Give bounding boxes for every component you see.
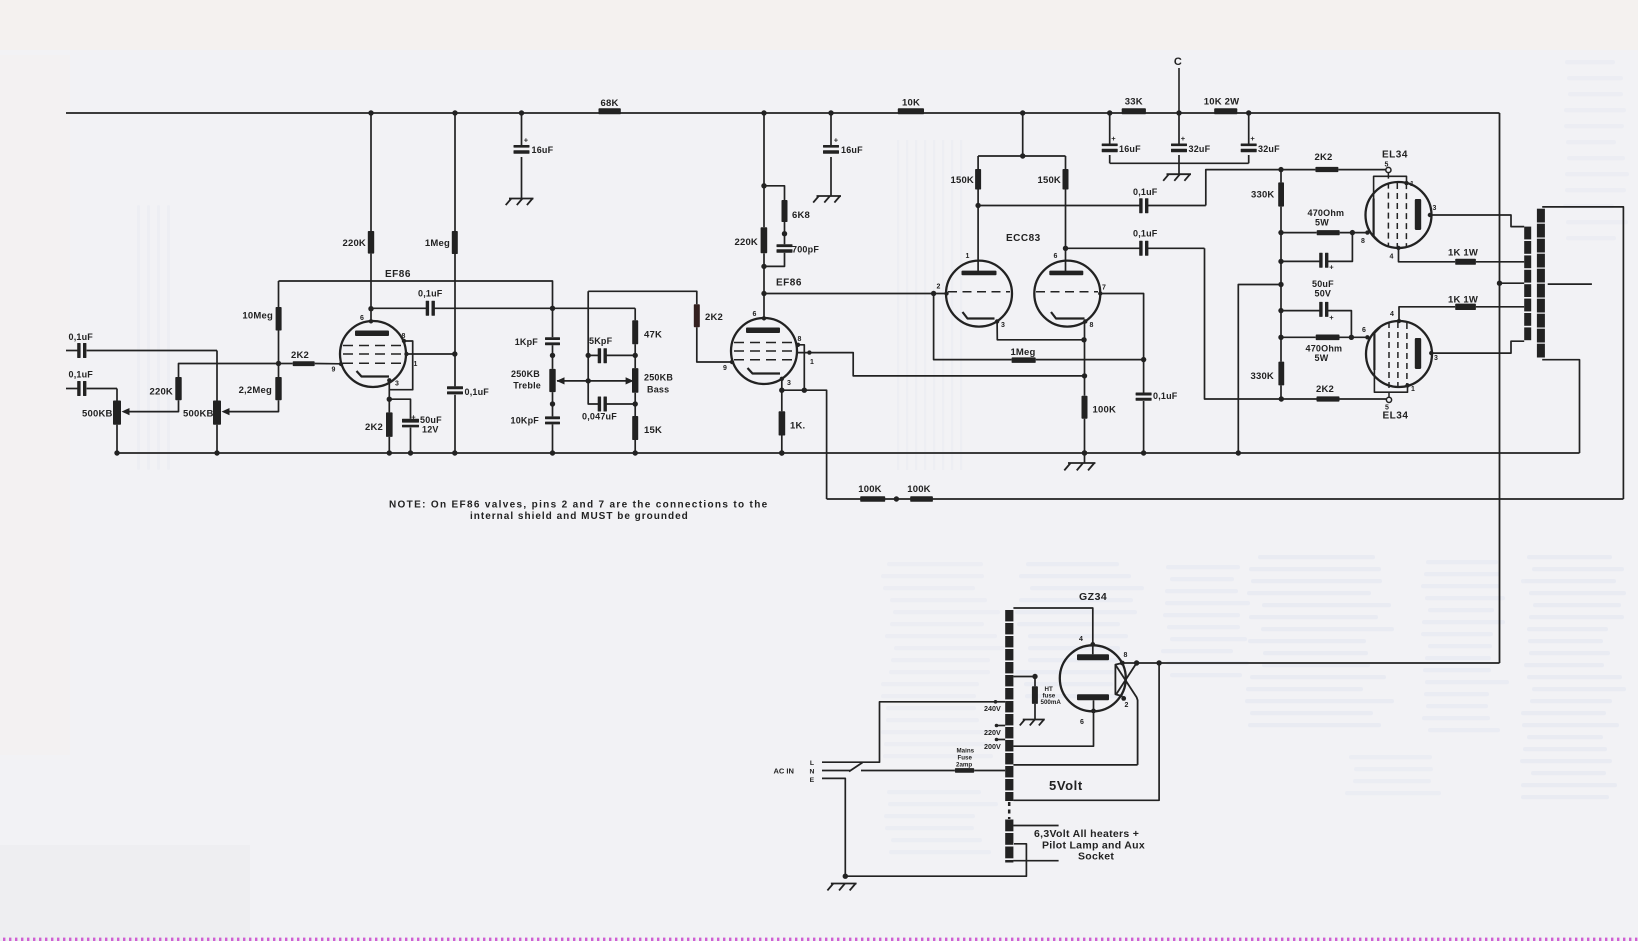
resistor 1K cathode EF86 II [779, 411, 786, 435]
svg-text:8: 8 [797, 336, 801, 343]
pin 4 screen EL34 top [1396, 246, 1400, 250]
pin 4 screen EL34 bottom [1397, 319, 1401, 323]
pin 1 dot [404, 352, 408, 356]
capacitor 32uF #2 [1248, 113, 1250, 144]
svg-text:3: 3 [1434, 355, 1438, 362]
svg-text:150K: 150K [950, 175, 974, 186]
svg-text:+: + [411, 413, 416, 422]
wire ladder mid to ground rail [1238, 285, 1281, 454]
svg-text:330K: 330K [1250, 371, 1274, 382]
resistor 330K bottom [1278, 362, 1284, 386]
resistor 2K2 grid EL34 bottom [1317, 396, 1340, 401]
resistor 220K anode EF86 I [368, 231, 374, 254]
svg-text:0,1uF: 0,1uF [1133, 187, 1158, 197]
resistor 2K2 grid EL34 top [1315, 167, 1338, 172]
junction E ground [843, 874, 848, 879]
wire NFB line [827, 498, 1624, 500]
EL34 bottom cathode loop pin1 [1405, 383, 1409, 387]
EL34 top anode bar [1415, 199, 1421, 230]
junction pot2-rail [214, 450, 219, 455]
svg-text:E: E [810, 777, 815, 784]
svg-text:10K 2W: 10K 2W [1204, 97, 1240, 108]
junction 6K8 branch top [761, 183, 766, 188]
svg-text:50uF: 50uF [1312, 279, 1334, 289]
pin 2 dot GZ34 [1121, 696, 1126, 701]
pin 8 jog EF86 II [798, 345, 804, 390]
wire top B+ rail [66, 112, 1500, 114]
EF86 #1 cathode [357, 371, 390, 377]
svg-text:5Volt: 5Volt [1049, 778, 1083, 793]
pin 5 ring EL34 bottom [1386, 397, 1391, 402]
resistor 220K anode EF86 II [761, 227, 768, 253]
svg-text:250KB: 250KB [511, 369, 540, 379]
pin 9 dot EF86 II [730, 360, 734, 364]
svg-text:2: 2 [936, 284, 940, 291]
wire mains N with switch [822, 770, 851, 772]
wire cathode to NFB divider [782, 390, 827, 499]
pin 3 plate EL34 bottom [1429, 351, 1433, 355]
junction 5KpF-mid [586, 353, 591, 358]
wire input B to pot 1 top [116, 389, 118, 401]
junction 470/50 right bottom [1349, 335, 1354, 340]
junction 470R bottom [1278, 335, 1283, 340]
resistor 1Meg ECC83 [1012, 357, 1036, 363]
resistor 100K NFB #1 [860, 496, 885, 502]
capacitor 32uF #1 [1178, 113, 1180, 144]
resistor 220K input [175, 377, 181, 400]
svg-text:1KpF: 1KpF [515, 337, 539, 347]
fuse HT 500mA [1032, 686, 1038, 704]
pin 8 cathode B [1083, 319, 1087, 323]
ECC83 A anode bar [962, 271, 997, 276]
wire screen bottom via 1K 1W to OT tap [1399, 307, 1455, 321]
wiper arrow pot1 [122, 408, 130, 415]
wire rail to 1Meg to screen node [454, 113, 456, 231]
wire HT top lead to pin 4 [1013, 608, 1092, 644]
junction 470R/50uF right top [1350, 230, 1355, 235]
wire 6.3V bottom lead [1013, 860, 1058, 862]
svg-text:10KpF: 10KpF [510, 416, 539, 426]
pin 9 dot [339, 362, 343, 366]
potentiometer 500KB #2 [213, 401, 221, 425]
wire rail to 220K to plate EF86 II [763, 113, 765, 227]
svg-text:0,1uF: 0,1uF [1133, 229, 1158, 239]
svg-text:6: 6 [360, 315, 364, 322]
svg-text:Socket: Socket [1078, 851, 1114, 863]
svg-text:500KB: 500KB [82, 409, 113, 420]
ECC83 B grid dash [1036, 291, 1098, 293]
wire joining filter cap bottoms [1110, 162, 1249, 164]
wire input A to pot 2 top [216, 351, 218, 401]
capacitor 50uF bottom [1281, 310, 1320, 312]
junction cathode EF86 II [779, 388, 784, 393]
pin 6 dot EL34 bottom [1365, 335, 1369, 339]
ground (mains E) [831, 883, 857, 885]
svg-text:8: 8 [1361, 238, 1365, 245]
ground (HT fuse) [1023, 719, 1045, 721]
tap 200V [996, 739, 1005, 741]
wire 5V bottom lead to pin 8 node [1013, 663, 1159, 800]
capacitor 16uF #2 with ground [830, 113, 832, 146]
svg-text:Bass: Bass [647, 385, 669, 395]
wire tone stack left vertical [552, 308, 554, 337]
svg-text:1: 1 [810, 359, 814, 366]
capacitor 5KpF [588, 354, 598, 356]
svg-text:Mains: Mains [957, 748, 975, 755]
junction 1KpF-treble [550, 353, 555, 358]
wire tone out to 2K2 EF86 II [588, 291, 697, 304]
svg-text:250KB: 250KB [644, 373, 673, 383]
svg-text:470Ohm: 470Ohm [1306, 344, 1343, 354]
wire GZ34 output to B+ [1122, 662, 1499, 664]
potentiometer 500KB #1 [113, 401, 121, 425]
svg-text:150K: 150K [1037, 175, 1061, 186]
GZ34 filament diagonals [1116, 663, 1137, 695]
wire 5V top lead [1013, 764, 1137, 766]
GZ34 filament bracket [1115, 663, 1122, 696]
junction rail EF86II 1K [779, 450, 784, 455]
svg-text:68K: 68K [600, 98, 618, 109]
op-amp ECC83 triode A envelope [946, 261, 1012, 327]
junction screen feed EF86 II [1082, 373, 1087, 378]
junction gridB cap to rail [1141, 450, 1146, 455]
pin 3 cathode EF86 II [780, 377, 784, 381]
svg-text:1: 1 [965, 253, 969, 260]
resistor 2K2 grid stopper EF86 II [694, 304, 700, 327]
svg-text:6: 6 [1362, 327, 1366, 334]
ground (ECC83 tail) [1084, 453, 1086, 463]
resistor 47K [632, 320, 638, 344]
pin 5 ring EL34 top [1386, 167, 1391, 172]
svg-text:5KpF: 5KpF [589, 336, 613, 346]
junction grid top [1278, 167, 1283, 172]
junction between 100Ks [894, 496, 899, 501]
junction 1K-rail [779, 450, 784, 455]
junction 700pF bottom [761, 264, 766, 269]
ECC83 B cathode [1051, 312, 1085, 319]
svg-text:Treble: Treble [513, 381, 541, 391]
junction screen bypass to rail [452, 450, 457, 455]
svg-text:EL34: EL34 [1383, 411, 1409, 422]
svg-text:2K2: 2K2 [1316, 384, 1334, 395]
svg-text:6K8: 6K8 [792, 210, 810, 221]
fuse Mains 2amp [955, 768, 974, 773]
capacitor 700pF [777, 244, 793, 247]
wire grid top line to tone stack [279, 281, 553, 308]
capacitor 0,1uF input A [66, 350, 78, 352]
junction plate node [368, 306, 373, 311]
wire tone stack right vertical [634, 308, 636, 320]
junction HT fuse top [1032, 674, 1037, 679]
EL34 top grid dashes [1387, 173, 1389, 247]
op-amp EF86 #1 envelope [340, 321, 406, 387]
transformer PT 6.3V winding column [1005, 820, 1013, 832]
resistor 2K2 grid stopper EF86 I [293, 361, 315, 366]
capacitor 16uF #3 [1109, 113, 1111, 144]
svg-text:+: + [1111, 134, 1116, 143]
capacitor 50uF top [1281, 260, 1320, 262]
ECC83 B anode bar [1049, 271, 1083, 276]
svg-text:3: 3 [1001, 322, 1005, 329]
svg-text:4: 4 [1079, 636, 1083, 643]
svg-text:8: 8 [1089, 322, 1093, 329]
EF86 #1 grid dashes [343, 345, 404, 347]
junction 1Meg-gridB [1141, 357, 1146, 362]
svg-text:9: 9 [723, 365, 727, 372]
svg-text:220K: 220K [149, 387, 173, 398]
wire screen top via 1K 1W to OT tap [1399, 248, 1456, 262]
svg-text:100K: 100K [907, 484, 931, 495]
svg-text:10K: 10K [902, 98, 920, 109]
svg-text:3: 3 [395, 381, 399, 388]
svg-text:2,2Meg: 2,2Meg [239, 385, 272, 396]
junction HT feed [1020, 153, 1025, 158]
svg-text:8: 8 [1123, 652, 1127, 659]
ground (16uF #1) [509, 198, 534, 200]
pin 4 dot GZ34 [1090, 642, 1095, 647]
svg-text:NOTE: On EF86 valves, pins 2 a: NOTE: On EF86 valves, pins 2 and 7 are t… [389, 500, 769, 511]
wire 6.3V top lead [1013, 825, 1058, 827]
wire OT centre tap [1500, 282, 1525, 284]
junction OT centre tap [1497, 281, 1502, 286]
junction 50uF-rail [408, 450, 413, 455]
svg-text:6,3Volt All heaters +: 6,3Volt All heaters + [1034, 828, 1139, 840]
svg-text:+: + [834, 136, 839, 145]
svg-text:9: 9 [331, 367, 335, 374]
svg-text:5: 5 [1385, 405, 1389, 412]
junction tail-rail [1082, 450, 1087, 455]
wire pin1 EF86 I [407, 353, 455, 355]
svg-text:+: + [1329, 263, 1334, 272]
junction 5V riser [1156, 660, 1161, 665]
junction dots on B+ rail [368, 110, 373, 115]
wire 150K right to plate [1065, 190, 1067, 272]
svg-text:1: 1 [1410, 181, 1414, 188]
pin 6 dot EF86 II [762, 316, 766, 320]
svg-text:220K: 220K [342, 238, 366, 249]
wire coupling lower to EL34 grid [1205, 248, 1282, 399]
junction left vertical to rail [550, 450, 555, 455]
op-amp EL34 bottom envelope [1366, 321, 1432, 387]
wire 220K top to grid node [179, 364, 279, 378]
svg-text:GZ34: GZ34 [1079, 591, 1107, 603]
wire grid A to 1Meg node [934, 294, 1012, 360]
wire mains L to 240V tap [822, 702, 995, 762]
svg-text:N: N [809, 769, 814, 776]
capacitor 50uF 12V cathode bypass [389, 399, 410, 419]
wire bias ladder vertical [1280, 170, 1282, 183]
ECC83 A cathode [963, 312, 995, 319]
svg-text:4: 4 [1389, 254, 1393, 261]
junction 47K-5KpF [633, 353, 638, 358]
wire grid-leak vertical [278, 281, 280, 307]
junction treble-10KpF [550, 401, 555, 406]
svg-text:0,047uF: 0,047uF [582, 412, 617, 422]
svg-text:2amp: 2amp [956, 762, 972, 769]
capacitor 0,1uF coupling upper [978, 205, 1140, 207]
resistor 10K 2W (rail) [1214, 108, 1237, 114]
resistor 2K2 cathode EF86 I [386, 412, 393, 437]
svg-text:1K 1W: 1K 1W [1448, 295, 1478, 306]
wire E ground to 6.3V centre tap [845, 844, 1026, 876]
pin 3 cathode wire EF86 I [387, 378, 391, 382]
junction pot1-rail [114, 450, 119, 455]
capacitor 0,1uF input B [66, 388, 78, 390]
op-amp EL34 top envelope [1366, 182, 1432, 248]
GZ34 top plate bar [1077, 654, 1109, 660]
wire pin 7 to grid B vertical [1100, 294, 1143, 393]
wire OT secondary bottom to rail [1542, 360, 1579, 453]
transformer PT core dashes [1008, 802, 1011, 819]
junction right vertical to rail [633, 450, 638, 455]
junction cathode [387, 397, 392, 402]
op-amp ECC83 triode B envelope [1034, 261, 1100, 327]
pin 3 plate EL34 top [1428, 213, 1432, 217]
svg-text:8: 8 [401, 333, 405, 340]
GZ34 bottom plate bar [1077, 694, 1109, 700]
svg-text:32uF: 32uF [1258, 144, 1280, 154]
junction rail ecc [1082, 450, 1087, 455]
junction grid bottom [1279, 396, 1284, 401]
resistor 6K8 [764, 186, 785, 200]
op-amp EF86 #2 envelope [731, 318, 797, 384]
wire 2,2Meg bottom to pot2 wiper [229, 400, 279, 411]
svg-text:EF86: EF86 [776, 278, 802, 289]
wire HT centre tap to fuse [1013, 676, 1035, 678]
junction coupling-left [550, 306, 555, 311]
pin 6 dot EF86 I [369, 319, 373, 323]
junction ladder-ground [1236, 450, 1241, 455]
junction bass-0,047uF [633, 401, 638, 406]
svg-text:240V: 240V [984, 704, 1001, 713]
ECC83 A grid dash [948, 291, 1010, 293]
svg-text:32uF: 32uF [1189, 144, 1211, 154]
junction screen/pin1 [452, 351, 457, 356]
potentiometer 250KB Treble [549, 369, 555, 392]
wire pot bottoms to ground rail [116, 425, 118, 453]
svg-text:15K: 15K [644, 425, 662, 436]
resistor 2,2Meg [275, 377, 281, 400]
EL34 bottom anode bar [1415, 338, 1421, 369]
svg-text:1K.: 1K. [790, 421, 805, 432]
junction plate node EF86 II [761, 291, 766, 296]
svg-text:6: 6 [1053, 253, 1057, 260]
svg-text:1: 1 [413, 361, 417, 368]
pin 2 dot [944, 291, 948, 295]
svg-text:47K: 47K [644, 330, 662, 341]
EF86 #1 anode bar [355, 331, 389, 337]
pin 8 jog EF86 I [389, 341, 412, 390]
svg-text:ECC83: ECC83 [1006, 233, 1041, 244]
wire plate EF86 II to ECC83 grid [764, 293, 947, 295]
wire 2K2 to pin9 EF86 II [697, 327, 732, 362]
EF86 #2 cathode [748, 368, 781, 374]
svg-text:1K 1W: 1K 1W [1448, 248, 1478, 259]
capacitor 16uF #1 with ground [521, 113, 523, 146]
svg-text:C: C [1174, 56, 1182, 68]
svg-text:330K: 330K [1251, 190, 1275, 201]
svg-text:220K: 220K [734, 237, 758, 248]
svg-text:5W: 5W [1315, 353, 1329, 363]
svg-text:0,1uF: 0,1uF [1153, 391, 1178, 401]
capacitor 0,047uF [598, 397, 601, 412]
resistor 150K right [1065, 156, 1067, 169]
junction 6K8-700pF [782, 231, 787, 236]
svg-text:12V: 12V [422, 425, 439, 435]
svg-text:1Meg: 1Meg [1010, 347, 1035, 358]
wire mains E to chassis ground [822, 778, 845, 876]
wire 220K bottom to pot1 wiper [129, 400, 179, 411]
capacitor 0,1uF grid B [1136, 393, 1152, 396]
wire rail to 220K to plate [370, 113, 372, 231]
svg-text:2K2: 2K2 [365, 422, 383, 433]
wire OT secondary output [1548, 283, 1592, 285]
op-amp GZ34 envelope [1060, 645, 1126, 711]
EL34 top cathode loop pin1 [1404, 181, 1408, 185]
pin 3 cathode A [995, 319, 999, 323]
svg-text:2: 2 [1124, 702, 1128, 709]
svg-text:100K: 100K [858, 484, 882, 495]
svg-text:200V: 200V [984, 742, 1001, 751]
svg-text:2K2: 2K2 [705, 312, 723, 323]
resistor 150K left [977, 156, 979, 169]
svg-text:500mA: 500mA [1041, 699, 1062, 706]
wire HT bottom lead to pin 6 [1013, 711, 1093, 746]
svg-text:4: 4 [1390, 311, 1394, 318]
resistor 1Meg screen feed [452, 231, 458, 254]
svg-text:16uF: 16uF [1119, 144, 1141, 154]
wire bottom common rail [116, 452, 1580, 454]
resistor 33K (rail) [1122, 108, 1146, 114]
resistor 15K [632, 416, 638, 440]
resistor 330K top [1278, 182, 1284, 206]
junction grid node [276, 361, 281, 366]
svg-text:+: + [1329, 313, 1334, 322]
wiper line treble-bass [557, 380, 633, 382]
resistor 10Meg [276, 307, 282, 331]
svg-text:L: L [810, 760, 814, 767]
resistor 68K (rail) [599, 108, 621, 114]
resistor 100K tail [1082, 396, 1088, 419]
svg-text:internal shield and MUST be gr: internal shield and MUST be grounded [470, 511, 689, 522]
pin 8 dot EL34 top [1365, 230, 1369, 234]
svg-text:33K: 33K [1125, 97, 1143, 108]
resistor 100K NFB #2 [910, 496, 933, 502]
wire ECC83 HT feed [1022, 113, 1024, 156]
capacitor 0,1uF coupling lower [1066, 247, 1140, 249]
capacitor 0,1uF screen bypass [447, 386, 463, 389]
junction 2K2-rail [387, 450, 392, 455]
svg-text:0,1uF: 0,1uF [69, 370, 94, 380]
svg-text:700pF: 700pF [792, 245, 819, 255]
junction cathodes join [1081, 337, 1086, 342]
capacitor 1KpF [545, 337, 560, 340]
junction pin8 jog [802, 388, 807, 393]
svg-text:16uF: 16uF [532, 145, 554, 155]
svg-text:+: + [1181, 134, 1186, 143]
svg-text:2K2: 2K2 [291, 350, 309, 361]
junction right plate node [1063, 246, 1068, 251]
svg-text:7: 7 [1102, 285, 1106, 292]
svg-text:3: 3 [1432, 205, 1436, 212]
bleed-through text artifacts [881, 562, 1004, 758]
svg-text:5W: 5W [1315, 218, 1329, 228]
svg-text:2K2: 2K2 [1315, 152, 1333, 163]
capacitor 0,1uF coupling EF86 I [371, 307, 426, 309]
wire B+ right vertical to GZ34 output [1499, 113, 1501, 663]
wire 1Meg to grid B vertical [1036, 359, 1144, 361]
transformer PT main winding column [1005, 610, 1013, 621]
